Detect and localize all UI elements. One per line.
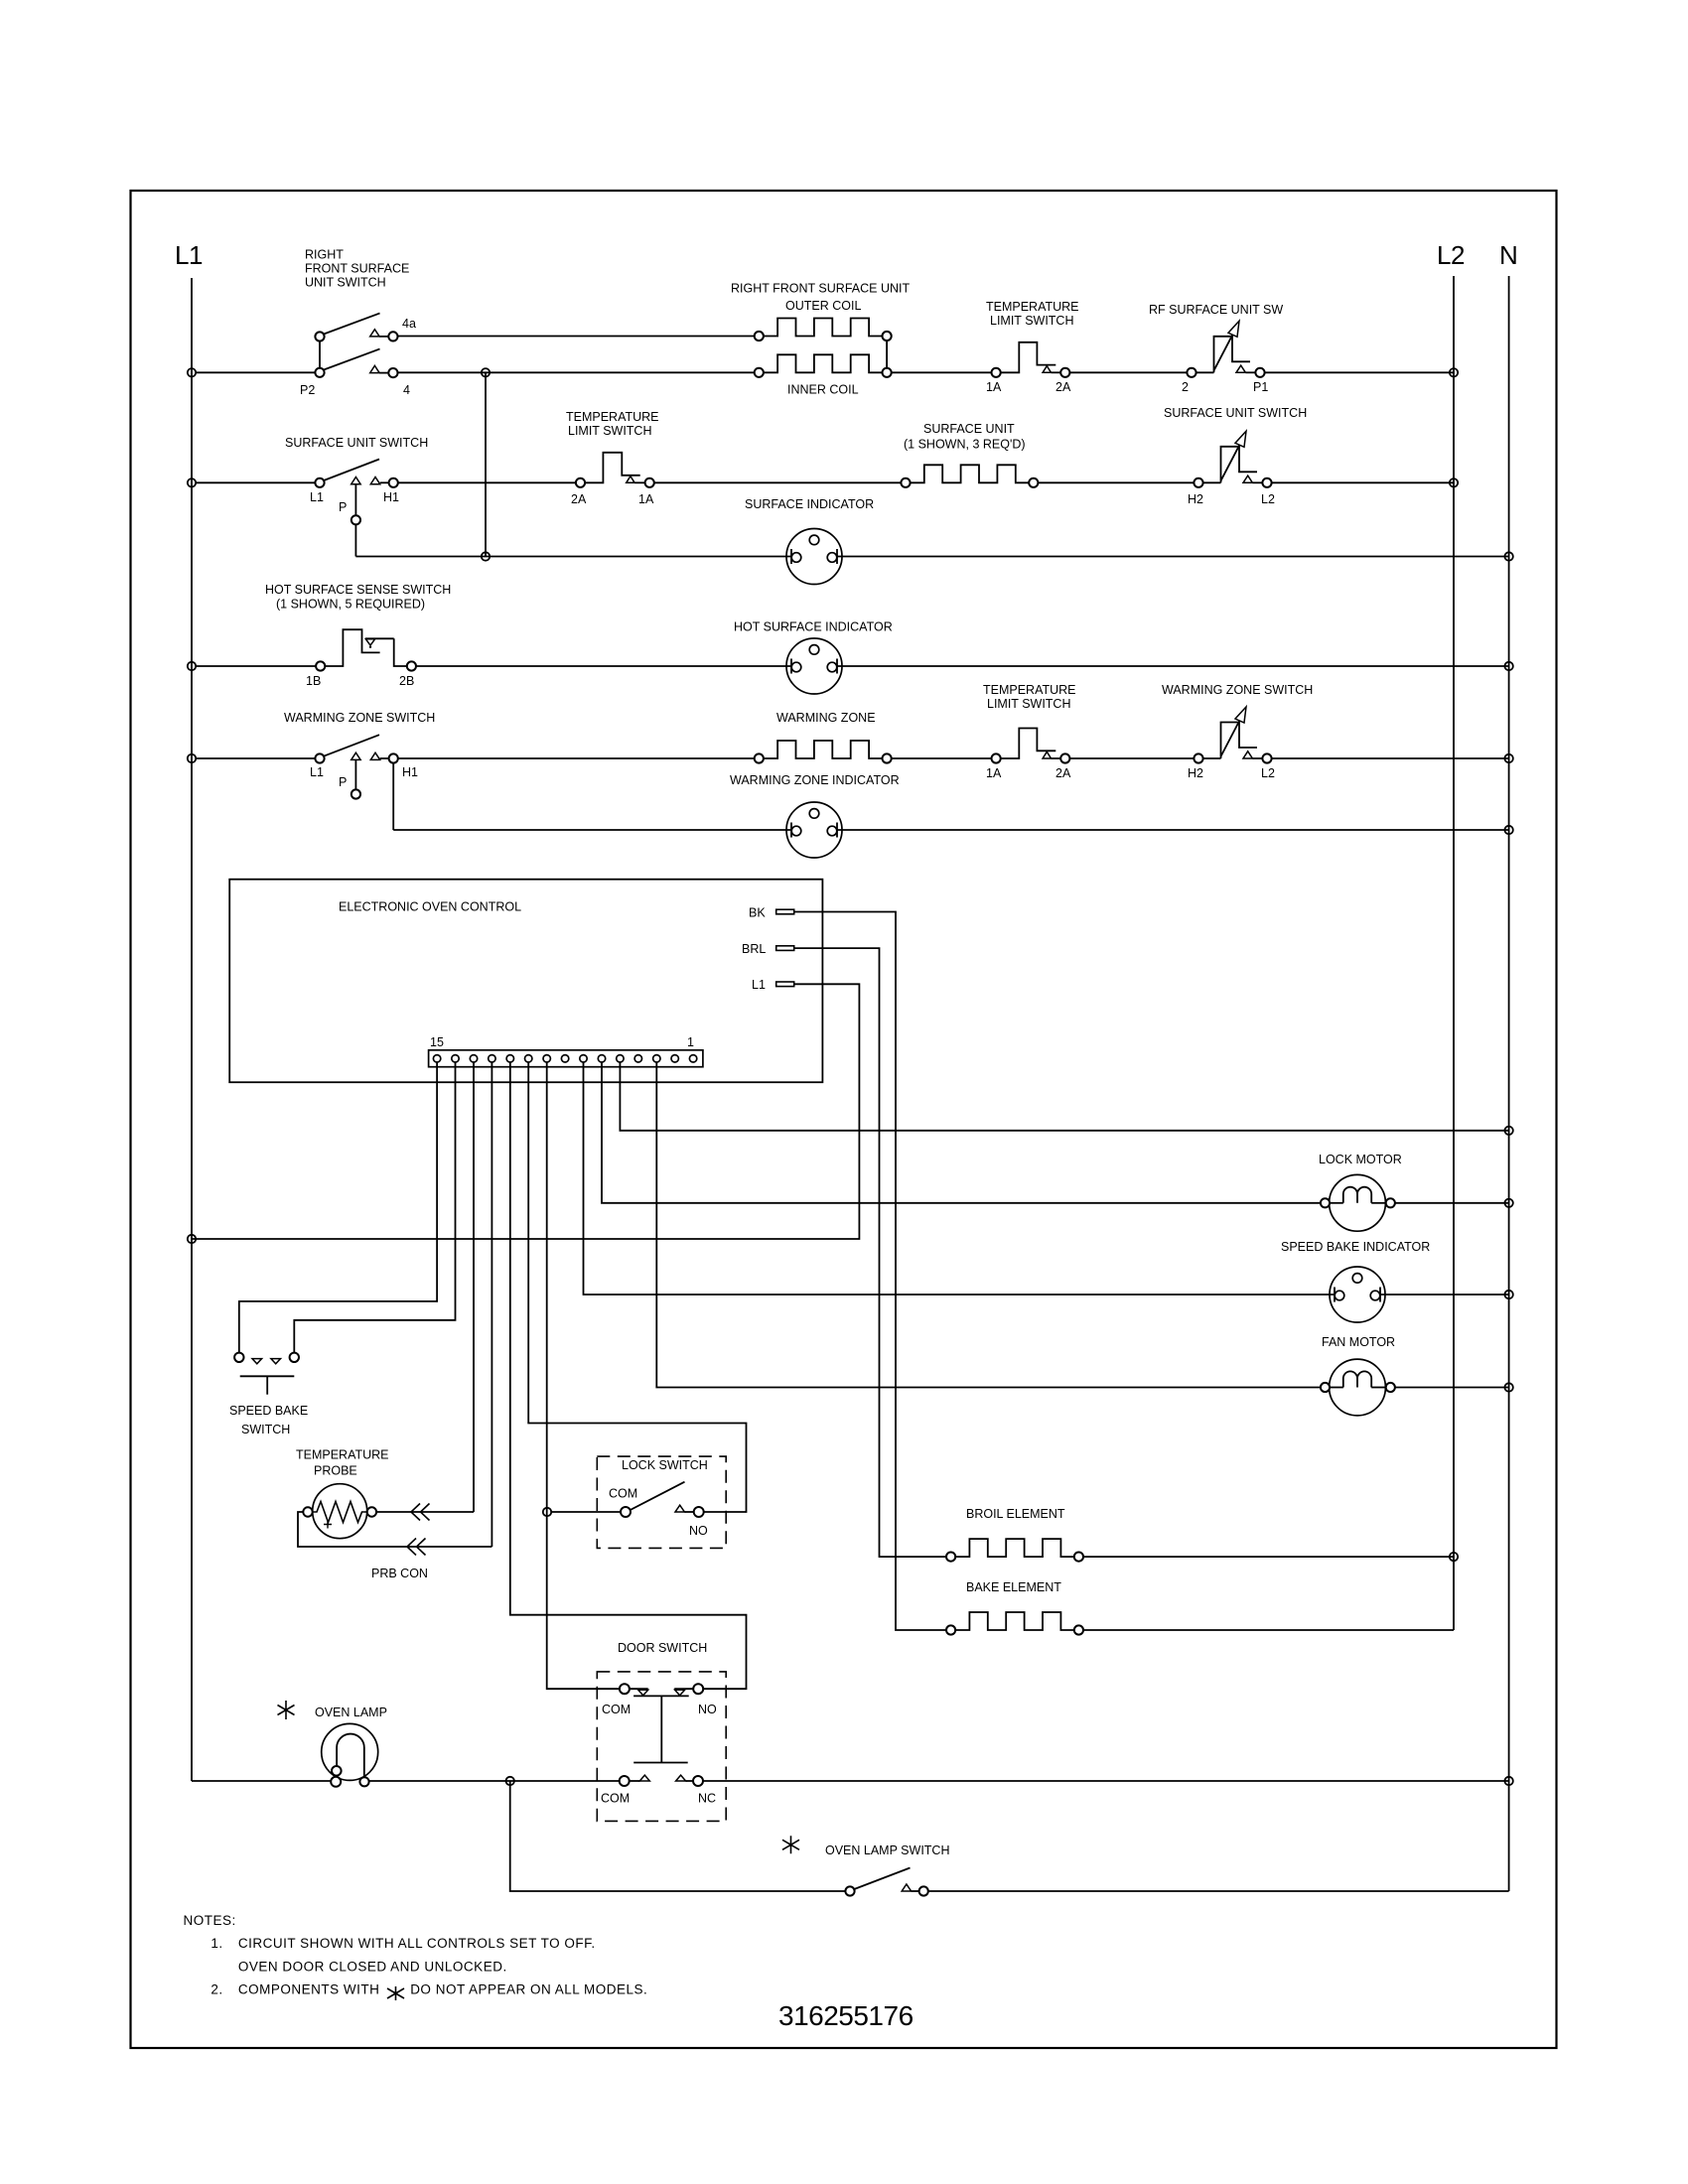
wire P1 to L2 rail: [1265, 371, 1454, 373]
wire fan motor to N: [1395, 1387, 1509, 1389]
svg-text:WARMING ZONE: WARMING ZONE: [776, 711, 876, 725]
wire lock motor to N: [1395, 1202, 1509, 1204]
svg-text:4a: 4a: [402, 317, 416, 331]
svg-text:OVEN LAMP: OVEN LAMP: [315, 1706, 387, 1719]
wire inner coil to 1A: [892, 371, 992, 373]
svg-text:HOT SURFACE INDICATOR: HOT SURFACE INDICATOR: [734, 620, 893, 634]
broil element: [946, 1507, 1083, 1562]
junction row1 at L1: [188, 368, 196, 376]
svg-text:NO: NO: [689, 1524, 708, 1538]
svg-text:SURFACE INDICATOR: SURFACE INDICATOR: [745, 497, 874, 511]
svg-text:L2: L2: [1437, 240, 1465, 270]
wire surface indicator to N: [837, 556, 1509, 558]
svg-text:LOCK MOTOR: LOCK MOTOR: [1319, 1153, 1402, 1166]
svg-text:CIRCUIT SHOWN WITH ALL CONTROL: CIRCUIT SHOWN WITH ALL CONTROLS SET TO O…: [238, 1936, 596, 1951]
svg-text:2: 2: [1182, 380, 1189, 394]
svg-text:(1 SHOWN, 3 REQ'D): (1 SHOWN, 3 REQ'D): [904, 438, 1026, 452]
wire L2 terminal row4 to N rail: [1272, 757, 1509, 759]
svg-text:COM: COM: [602, 1703, 631, 1716]
wire L1 to warming zone switch: [197, 757, 316, 759]
svg-text:L1: L1: [752, 978, 766, 992]
wire 2A to warming zone rotary: [1069, 757, 1194, 759]
right front surface unit outer coil: [731, 282, 910, 341]
wire pin 15 to speed bake switch: [239, 1062, 437, 1353]
svg-text:N: N: [1499, 240, 1517, 270]
wire probe bottom loop: [298, 1512, 492, 1547]
connector chevrons probe top: [411, 1504, 430, 1521]
junction at surface indicator row: [482, 552, 490, 560]
svg-text:SURFACE UNIT SWITCH: SURFACE UNIT SWITCH: [1164, 406, 1307, 420]
wire drop to oven lamp switch row: [510, 1781, 846, 1891]
svg-text:L2: L2: [1261, 492, 1275, 506]
svg-text:BRL: BRL: [742, 942, 766, 956]
svg-text:L1: L1: [310, 765, 324, 779]
wire H1 drop to warming zone indicator: [393, 829, 791, 831]
svg-text:1A: 1A: [986, 380, 1002, 394]
junction speed bake indicator at N: [1504, 1291, 1512, 1298]
wire broil element to L2: [1083, 1556, 1454, 1558]
door switch: [597, 1641, 726, 1821]
svg-text:1A: 1A: [638, 492, 654, 506]
svg-text:1B: 1B: [306, 674, 321, 688]
fan motor: [1321, 1335, 1395, 1416]
notes: [184, 1913, 648, 2000]
svg-text:H2: H2: [1188, 766, 1203, 780]
pin BK: [749, 906, 794, 920]
svg-text:COM: COM: [609, 1487, 637, 1501]
svg-text:LIMIT SWITCH: LIMIT SWITCH: [990, 314, 1074, 328]
oven lamp switch: [782, 1836, 949, 1895]
wire 2B to hot surface indicator: [416, 665, 791, 667]
svg-text:LOCK SWITCH: LOCK SWITCH: [622, 1458, 708, 1472]
svg-text:P: P: [339, 500, 347, 514]
surface unit coil: [901, 422, 1038, 487]
svg-text:H1: H1: [383, 490, 399, 504]
wire L2 rail: [1453, 276, 1455, 1630]
wire L2 terminal to L2 rail: [1272, 481, 1454, 483]
svg-text:OVEN DOOR CLOSED AND UNLOCKED.: OVEN DOOR CLOSED AND UNLOCKED.: [238, 1960, 507, 1975]
junction pin5 row at N: [1504, 1127, 1512, 1135]
junction broil at L2: [1450, 1553, 1458, 1561]
temperature limit switch row2: [566, 410, 659, 506]
wire pin 12 to probe bottom row: [491, 1062, 492, 1547]
svg-text:SURFACE UNIT: SURFACE UNIT: [923, 422, 1015, 436]
junction pin9 at lock switch: [543, 1508, 551, 1516]
temperature probe: [296, 1448, 389, 1539]
wire coil to 1A row4: [892, 757, 992, 759]
speed bake switch: [229, 1353, 308, 1436]
svg-text:H2: H2: [1188, 492, 1203, 506]
svg-text:DOOR SWITCH: DOOR SWITCH: [618, 1641, 707, 1655]
svg-text:WARMING ZONE SWITCH: WARMING ZONE SWITCH: [284, 711, 435, 725]
svg-text:PRB CON: PRB CON: [371, 1567, 428, 1580]
warming zone switch: [284, 711, 435, 799]
surface unit switch: [285, 436, 428, 557]
svg-text:TEMPERATURE: TEMPERATURE: [566, 410, 659, 424]
svg-text:NO: NO: [698, 1703, 717, 1716]
warming zone switch rotary: [1162, 683, 1313, 780]
junction row2 at L2: [1450, 478, 1458, 486]
RF surface unit switch: [1149, 303, 1283, 394]
svg-text:BROIL ELEMENT: BROIL ELEMENT: [966, 1507, 1065, 1521]
wire oven lamp switch to N: [928, 1890, 1509, 1892]
wire H1 to limit switch 2A: [398, 481, 576, 483]
svg-text:BK: BK: [749, 906, 766, 920]
right front surface unit switch: [197, 248, 416, 398]
surface unit switch rotary: [1164, 406, 1307, 506]
svg-text:316255176: 316255176: [778, 2000, 914, 2031]
junction lock motor at N: [1504, 1199, 1512, 1207]
junction row1 drop: [482, 368, 490, 376]
warming zone indicator: [730, 773, 900, 858]
wire pin 13 to probe top row: [473, 1062, 475, 1512]
svg-text:SPEED BAKE INDICATOR: SPEED BAKE INDICATOR: [1281, 1240, 1430, 1254]
junction row4 at N: [1504, 754, 1512, 762]
wire N rail: [1508, 276, 1510, 1891]
wire pin 3 to fan motor row: [656, 1062, 1330, 1388]
wire 2A to RF switch: [1069, 371, 1187, 373]
svg-text:1A: 1A: [986, 766, 1002, 780]
svg-text:TEMPERATURE: TEMPERATURE: [986, 300, 1079, 314]
temperature limit switch row4: [983, 683, 1076, 780]
svg-text:COMPONENTS WITH: COMPONENTS WITH: [238, 1982, 380, 1997]
junction row2 at L1: [188, 478, 196, 486]
svg-text:P1: P1: [1253, 380, 1268, 394]
wire probe top row to pin13: [376, 1511, 474, 1513]
junction oven lamp row at N: [1504, 1777, 1512, 1785]
warming zone coil: [755, 711, 892, 763]
svg-text:OVEN LAMP SWITCH: OVEN LAMP SWITCH: [825, 1843, 949, 1857]
svg-text:UNIT SWITCH: UNIT SWITCH: [305, 276, 386, 290]
wire pin 5 to N row: [620, 1062, 1508, 1131]
svg-text:H1: H1: [402, 765, 418, 779]
svg-text:2A: 2A: [1055, 766, 1071, 780]
speed bake indicator: [1281, 1240, 1430, 1322]
svg-text:OUTER COIL: OUTER COIL: [785, 299, 861, 313]
wire pin 11 to door switch NO: [510, 1062, 747, 1689]
pin L1: [752, 978, 794, 992]
svg-text:PROBE: PROBE: [314, 1464, 357, 1478]
lock switch: [597, 1456, 726, 1548]
lock motor: [1319, 1153, 1402, 1231]
oven lamp: [278, 1701, 387, 1787]
wire H1 drop to warming zone indicator row: [392, 763, 394, 830]
hot surface indicator: [734, 620, 893, 695]
wire door NC to N: [703, 1780, 1509, 1782]
svg-text:1: 1: [687, 1035, 694, 1049]
svg-text:WARMING ZONE SWITCH: WARMING ZONE SWITCH: [1162, 683, 1313, 697]
svg-text:2B: 2B: [399, 674, 414, 688]
svg-text:SWITCH: SWITCH: [241, 1423, 290, 1436]
svg-text:2A: 2A: [1055, 380, 1071, 394]
svg-text:P: P: [339, 775, 347, 789]
connector chevrons probe bottom (PRB CON): [371, 1539, 428, 1581]
junction row4 at L1: [188, 754, 196, 762]
wire junction to lock COM: [551, 1511, 621, 1513]
wire L1 to 1B: [197, 665, 316, 667]
wire warming zone indicator to N: [837, 829, 1509, 831]
pin BRL: [742, 942, 794, 956]
electronic oven control box: [229, 880, 822, 1082]
wire L1 to surface unit switch: [197, 481, 316, 483]
wire bake element to L2 end: [1083, 1629, 1454, 1631]
svg-text:NC: NC: [698, 1792, 716, 1806]
temperature limit switch row1: [986, 300, 1079, 394]
svg-text:TEMPERATURE: TEMPERATURE: [983, 683, 1076, 697]
wire pin 14 to speed bake switch: [294, 1062, 455, 1353]
wire 4a row to outer coil: [398, 336, 760, 338]
svg-text:SPEED BAKE: SPEED BAKE: [229, 1404, 308, 1418]
wire speed bake indicator to N: [1380, 1294, 1509, 1296]
wire pin 6 to lock motor row: [602, 1062, 1330, 1203]
svg-text:FAN MOTOR: FAN MOTOR: [1322, 1335, 1395, 1349]
svg-text:NOTES:: NOTES:: [184, 1913, 236, 1928]
svg-text:(1 SHOWN, 5 REQUIRED): (1 SHOWN, 5 REQUIRED): [276, 598, 425, 612]
wire row1 contact 4 to inner coil: [398, 371, 760, 373]
wire hot surface indicator to N: [837, 665, 1509, 667]
junction row1 at L2: [1450, 368, 1458, 376]
wire 1A to surface unit coil: [654, 481, 906, 483]
svg-text:INNER COIL: INNER COIL: [787, 383, 859, 397]
wire pin 9 to lock COM and door COM: [547, 1062, 620, 1689]
wire coil to H2: [1038, 481, 1194, 483]
surface indicator: [745, 497, 874, 585]
svg-text:L1: L1: [310, 490, 324, 504]
svg-text:TEMPERATURE: TEMPERATURE: [296, 1448, 389, 1462]
junction fan motor at N: [1504, 1383, 1512, 1391]
svg-text:1.: 1.: [211, 1936, 222, 1951]
svg-text:RF SURFACE UNIT SW: RF SURFACE UNIT SW: [1149, 303, 1283, 317]
svg-text:L1: L1: [175, 240, 203, 270]
junction surface indicator at N: [1504, 552, 1512, 560]
svg-text:HOT SURFACE SENSE SWITCH: HOT SURFACE SENSE SWITCH: [265, 583, 451, 597]
svg-text:15: 15: [430, 1035, 444, 1049]
wire L1 pin to L1 rail: [192, 984, 859, 1239]
svg-text:SURFACE UNIT SWITCH: SURFACE UNIT SWITCH: [285, 436, 428, 450]
svg-text:2.: 2.: [211, 1982, 222, 1997]
svg-text:2A: 2A: [571, 492, 587, 506]
wire pin 7 to speed bake indicator row: [584, 1062, 1336, 1295]
junction row3 at N: [1504, 662, 1512, 670]
svg-text:WARMING ZONE INDICATOR: WARMING ZONE INDICATOR: [730, 773, 900, 787]
wire L1 rail: [191, 278, 193, 1781]
svg-text:4: 4: [403, 383, 410, 397]
wire P drop to surface indicator: [355, 556, 791, 558]
wire BK to bake element: [794, 912, 946, 1631]
junction row3 at L1: [188, 662, 196, 670]
wire L1 rail bottom to oven lamp row: [192, 1780, 332, 1782]
junction oven lamp row drop: [506, 1777, 514, 1785]
svg-text:BAKE ELEMENT: BAKE ELEMENT: [966, 1580, 1061, 1594]
wire drop junction to surface indicator row: [485, 372, 487, 556]
wire pin 10 to lock switch NO: [528, 1062, 746, 1512]
svg-text:L2: L2: [1261, 766, 1275, 780]
junction L1 feed at L1 rail: [188, 1235, 196, 1243]
connector strip: [429, 1035, 703, 1067]
svg-text:RIGHT FRONT SURFACE UNIT: RIGHT FRONT SURFACE UNIT: [731, 282, 910, 296]
wire oven lamp to door switch COM: [369, 1780, 620, 1782]
hot surface sense switch: [265, 583, 451, 688]
svg-text:P2: P2: [300, 383, 315, 397]
svg-text:ELECTRONIC OVEN CONTROL: ELECTRONIC OVEN CONTROL: [339, 900, 521, 914]
svg-text:LIMIT SWITCH: LIMIT SWITCH: [987, 697, 1071, 711]
svg-text:COM: COM: [601, 1792, 630, 1806]
right front surface unit inner coil: [755, 354, 892, 396]
svg-text:RIGHT: RIGHT: [305, 248, 344, 262]
svg-text:LIMIT SWITCH: LIMIT SWITCH: [568, 424, 652, 438]
svg-text:FRONT SURFACE: FRONT SURFACE: [305, 262, 409, 276]
wire BRL to broil element: [794, 948, 946, 1557]
wire H1 to warming zone coil: [398, 757, 760, 759]
junction warming indicator at N: [1504, 826, 1512, 834]
bake element: [946, 1580, 1083, 1635]
svg-text:DO NOT APPEAR ON ALL MODELS.: DO NOT APPEAR ON ALL MODELS.: [410, 1982, 647, 1997]
wire joining coil right terminals: [886, 341, 888, 368]
